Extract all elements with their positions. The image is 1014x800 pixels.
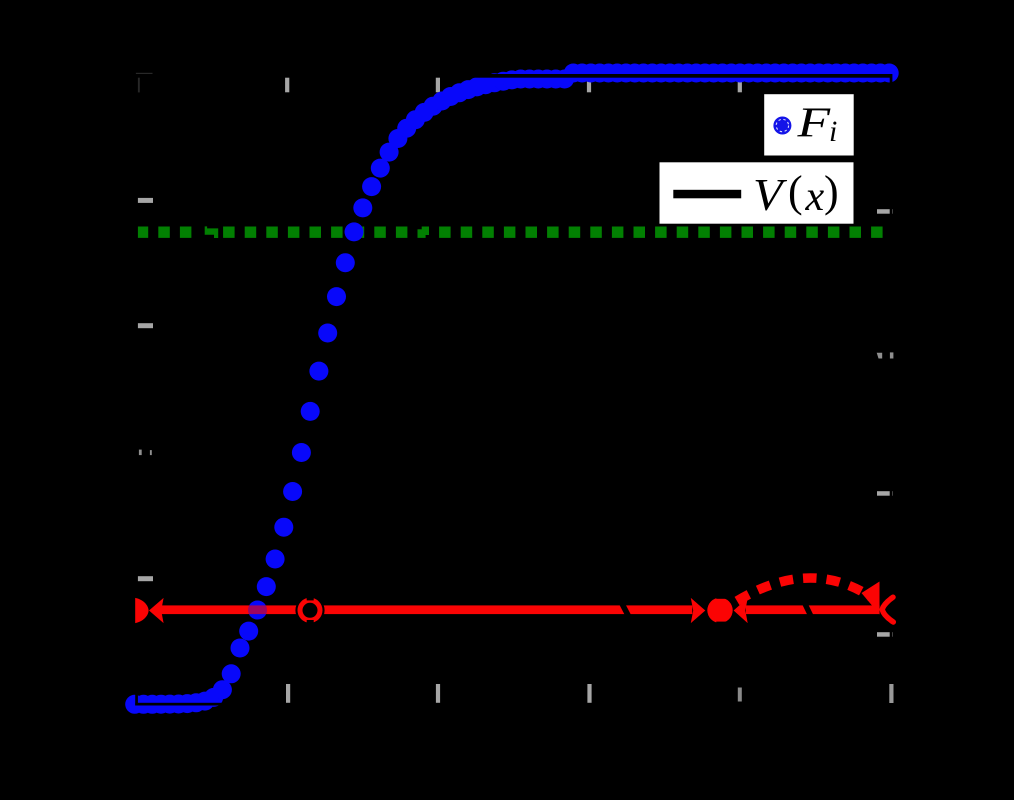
svg-text:V: V	[753, 170, 787, 220]
svg-text:x: x	[805, 174, 825, 220]
svg-text:F: F	[796, 100, 830, 146]
svg-text:(: (	[788, 167, 803, 216]
svg-text:i: i	[829, 115, 837, 148]
svg-text:): )	[824, 167, 839, 216]
